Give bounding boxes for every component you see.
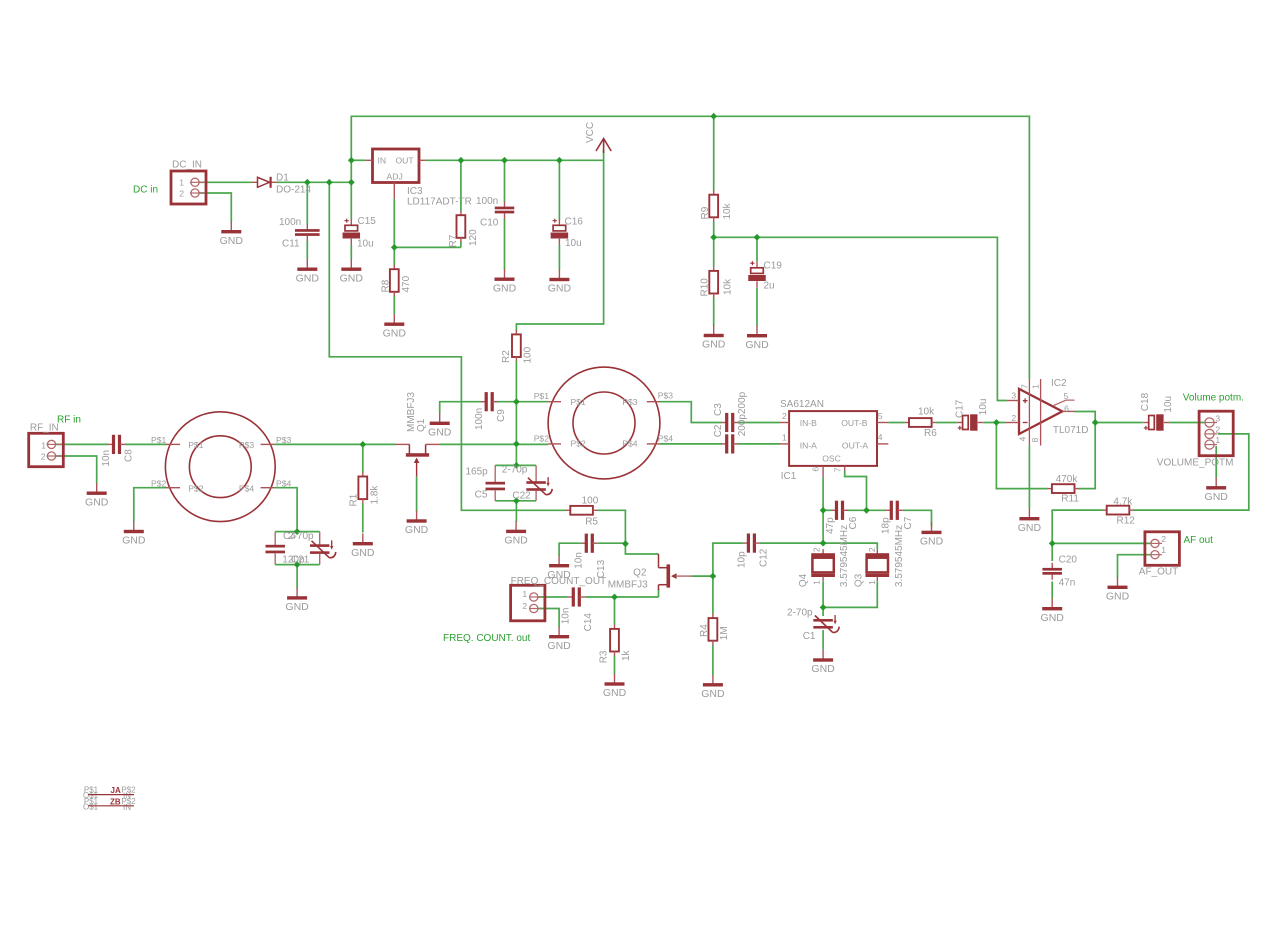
wire RF_IN pin2 to ground [56, 456, 97, 484]
svg-text:1: 1 [179, 178, 184, 188]
wire IC1 pin7 dogleg [845, 471, 867, 510]
wire C9 right to R2 node [497, 401, 516, 403]
svg-text:1: 1 [522, 589, 527, 599]
resistor R5 100 [566, 506, 597, 515]
svg-text:C22: C22 [512, 490, 531, 501]
svg-text:C2: C2 [713, 424, 724, 437]
svg-text:IN: IN [123, 803, 131, 812]
wire FREQ pin1 to C14 [538, 596, 568, 598]
wire C17 to op-amp pin2 [983, 422, 1006, 424]
resistor R7 120 [457, 211, 466, 242]
svg-text:100n: 100n [476, 196, 498, 207]
node osc C7/pin7 junction [863, 507, 870, 514]
svg-text:P$2: P$2 [151, 479, 167, 489]
svg-text:C17: C17 [954, 399, 965, 418]
ground op-amp pin4 [1018, 509, 1042, 534]
transformer TR2 [534, 367, 674, 479]
svg-text:2-70p: 2-70p [787, 607, 813, 618]
svg-text:P$4: P$4 [276, 479, 292, 489]
svg-text:C11: C11 [282, 239, 300, 250]
wire IC1 pin6 osc leg [822, 477, 824, 543]
capacitor C16 10u [551, 219, 569, 246]
svg-text:6: 6 [1064, 403, 1069, 413]
node tank2 bottom junction [513, 497, 520, 504]
svg-text:3.579545MHz: 3.579545MHz [839, 525, 850, 587]
svg-text:FREQ_COUNT_OUT: FREQ_COUNT_OUT [511, 576, 607, 587]
svg-text:R9: R9 [700, 206, 711, 219]
ground Q1 [405, 511, 429, 536]
svg-text:470: 470 [401, 275, 412, 292]
ground tank2 [504, 521, 528, 546]
svg-text:47p: 47p [825, 517, 836, 534]
resistor R11 470k [1048, 484, 1079, 493]
wire R1 leg [362, 444, 364, 532]
svg-text:P$4: P$4 [239, 484, 255, 494]
node C19 junction [754, 234, 761, 241]
svg-text:R6: R6 [924, 428, 937, 439]
wire IC3 IN branch [351, 159, 365, 161]
svg-text:TL071D: TL071D [1053, 425, 1089, 436]
svg-text:10u: 10u [565, 238, 582, 249]
svg-text:1: 1 [812, 580, 822, 585]
resistor R8 470 [390, 265, 399, 296]
node tank2 top junction [513, 462, 520, 469]
ground R1 [351, 534, 375, 559]
connector X1 DC_IN [171, 160, 206, 205]
svg-text:C1: C1 [803, 631, 816, 642]
svg-text:10p: 10p [737, 551, 748, 568]
ground potm pin1 [1205, 478, 1229, 503]
svg-text:18p: 18p [881, 517, 892, 534]
node tank1 top junction [294, 528, 301, 535]
capacitor C7 18p [886, 501, 903, 520]
svg-text:10u: 10u [978, 399, 989, 416]
wire Q2 drain dogleg [625, 544, 658, 554]
node VCC/R9 junction [710, 113, 717, 120]
capacitor C19 2u [748, 261, 766, 288]
svg-text:100: 100 [523, 346, 534, 363]
svg-text:R12: R12 [1117, 516, 1136, 527]
svg-text:2: 2 [522, 601, 527, 611]
capacitor C9 100n [481, 392, 498, 411]
svg-text:OUT: OUT [396, 155, 415, 165]
svg-text:C8: C8 [123, 449, 134, 462]
svg-text:P$2: P$2 [571, 438, 587, 448]
wire crystals gate line to Q3 [823, 543, 877, 549]
resistor R3 1k [610, 625, 619, 656]
wire tank C4/C21 bottom rail [275, 564, 320, 566]
connector X2 RF_IN [29, 423, 64, 467]
svg-text:P$2: P$2 [534, 434, 550, 444]
wire C13 left to ground [559, 543, 581, 556]
svg-text:2: 2 [179, 189, 184, 199]
svg-text:ADJ: ADJ [387, 171, 403, 181]
svg-text:RF in: RF in [57, 414, 81, 425]
svg-text:AF out: AF out [1184, 535, 1214, 546]
svg-text:C18: C18 [1140, 392, 1151, 411]
node junction dots [348, 157, 355, 164]
wire L1 P$3 to Q1 [275, 443, 396, 445]
transistor Q2 MMBFJ3 [608, 554, 691, 591]
wire tank to ground [296, 565, 298, 589]
node osc C6 junction [820, 507, 827, 514]
capacitor C5 165p [466, 465, 506, 500]
svg-text:P$3: P$3 [622, 397, 638, 407]
transistor Q1 MMBFJ3 [396, 392, 440, 477]
trimmer C21 2-70p [283, 531, 336, 565]
node R5/C13/Q2 junction [622, 540, 629, 547]
ground C7 [920, 522, 944, 547]
svg-text:OUT-A: OUT-A [842, 440, 869, 450]
wire C19 leg [756, 237, 758, 326]
op-amp IC2 TL071D [1006, 378, 1089, 446]
svg-text:IN-A: IN-A [800, 440, 817, 450]
trimmer C1 2-70p [813, 615, 839, 633]
node OUT/C16 junction [556, 157, 563, 164]
svg-text:1: 1 [1161, 545, 1166, 555]
node output junction [1092, 419, 1099, 426]
resistor R6 10k [905, 418, 936, 427]
ground C20 [1041, 599, 1065, 624]
wire L1 P$2 to ground [134, 488, 166, 522]
ground R4 [701, 675, 725, 700]
wire C14 line to Q2 source [585, 596, 659, 598]
wire tank C4/C21 top rail [275, 531, 320, 533]
svg-text:P$1: P$1 [534, 391, 550, 401]
node C17/op-amp junction [993, 419, 1000, 426]
svg-text:Q4: Q4 [798, 573, 809, 587]
wire R4 leg [712, 576, 714, 675]
wire IC3 OUT rail to VCC and R2 [426, 150, 604, 331]
wire C15 leg [350, 182, 352, 259]
capacitor C2 200p [721, 434, 738, 453]
svg-text:2: 2 [867, 547, 877, 552]
wire C13 to R5 node [598, 542, 626, 544]
svg-text:1: 1 [41, 440, 46, 450]
ground RF_IN pin2 [85, 483, 109, 508]
svg-text:C5: C5 [475, 489, 488, 500]
wire Q2 source down [658, 589, 660, 597]
svg-text:10k: 10k [723, 278, 734, 295]
svg-text:FREQ. COUNT. out: FREQ. COUNT. out [443, 633, 530, 644]
symbol JA jumper (sheet corner) [83, 786, 136, 801]
svg-text:C15: C15 [358, 216, 377, 227]
wire VCC top rail [351, 116, 1029, 379]
svg-text:2: 2 [1215, 424, 1220, 434]
wire C10 leg [504, 160, 506, 269]
svg-text:200p: 200p [737, 391, 748, 414]
wire C16 leg [558, 160, 560, 269]
svg-text:DC_IN: DC_IN [172, 160, 202, 171]
svg-text:10k: 10k [918, 407, 935, 418]
svg-text:10n: 10n [561, 608, 572, 625]
svg-text:MMBFJ3: MMBFJ3 [608, 580, 648, 591]
capacitor C4 120p [266, 532, 310, 566]
wire IC1 pin5 to R6 [888, 422, 905, 424]
svg-text:1k: 1k [621, 649, 632, 661]
svg-text:OSC: OSC [822, 454, 841, 464]
svg-text:IN: IN [378, 155, 387, 165]
svg-text:R8: R8 [381, 279, 392, 292]
svg-text:1.8k: 1.8k [369, 485, 380, 505]
svg-text:7: 7 [1020, 384, 1030, 389]
svg-text:DO-214: DO-214 [276, 185, 311, 196]
node crystal gate junction [820, 540, 827, 547]
wire DC_IN pin2 to ground [199, 193, 231, 222]
svg-text:P$1: P$1 [188, 440, 204, 450]
resistor R1 1.8k [358, 472, 367, 503]
wire R2 bottom vertical through P$2 node to tank2 [515, 361, 517, 465]
wire gate line to C12 corner [713, 543, 743, 576]
svg-text:3.579545MHz: 3.579545MHz [894, 525, 905, 587]
capacitor C15 10u [343, 219, 361, 246]
svg-text:165p: 165p [466, 466, 489, 477]
ground tank1 [285, 588, 309, 613]
wire RF_IN pin1 to C8 [56, 443, 108, 445]
connector X4 AF_OUT [1139, 532, 1180, 578]
node crystal bottom junction [820, 604, 827, 611]
svg-text:Q1: Q1 [416, 418, 427, 432]
node R2/C9/L2P$1 junction [513, 398, 520, 405]
wire C12 to crystals node [760, 542, 823, 544]
svg-text:R1: R1 [348, 493, 359, 506]
wire node to L2 P$1 [516, 401, 548, 403]
svg-text:470k: 470k [1056, 474, 1079, 485]
svg-text:10k: 10k [722, 202, 733, 219]
svg-text:C12: C12 [758, 548, 769, 567]
svg-text:P$2: P$2 [188, 484, 204, 494]
wire C2 to IC1 pin1 [738, 443, 780, 445]
svg-text:R7: R7 [448, 234, 459, 247]
ground C15 [340, 259, 364, 284]
svg-text:VCC: VCC [585, 122, 596, 143]
svg-text:6: 6 [811, 467, 821, 472]
svg-text:R3: R3 [598, 650, 609, 663]
svg-text:R11: R11 [1061, 494, 1079, 505]
svg-text:8: 8 [1030, 438, 1040, 443]
svg-text:3: 3 [1011, 390, 1016, 400]
svg-text:Volume potm.: Volume potm. [1183, 393, 1244, 404]
ground C19 [745, 326, 769, 351]
resistor R10 10k [709, 267, 718, 298]
svg-text:P$3: P$3 [276, 435, 292, 445]
wire FREQ pin2 to ground [538, 609, 559, 628]
wire op-amp pin6 output to feedback right leg [1075, 412, 1096, 489]
supply symbol VCC [585, 122, 611, 153]
svg-text:200p: 200p [737, 414, 748, 437]
wire potm pin1 to ground [1215, 446, 1217, 478]
svg-text:P$1: P$1 [571, 397, 587, 407]
capacitor C20 47n [1042, 563, 1062, 580]
svg-text:5: 5 [878, 411, 883, 421]
svg-text:1M: 1M [719, 626, 730, 640]
wire R12 to C20/AF node [1052, 510, 1151, 543]
node ADJ/R8 junction [391, 244, 398, 251]
node C14/R3 junction [611, 594, 618, 601]
node R9/R10 junction [710, 234, 717, 241]
wire C6 to pin7 node [848, 509, 886, 511]
capacitor C18 10u [1143, 414, 1170, 430]
ground C16 [548, 269, 572, 294]
svg-text:VOLUME_POTM: VOLUME_POTM [1157, 457, 1234, 468]
svg-text:1: 1 [782, 432, 787, 442]
ground FREQ pin2 [547, 627, 571, 652]
wire L2 P$4 to C2 [660, 443, 722, 445]
node D1/C11 junction [304, 179, 311, 186]
svg-text:R4: R4 [699, 624, 710, 637]
svg-text:47n: 47n [1059, 578, 1076, 589]
node R12/C20/AF junction [1049, 540, 1056, 547]
ground C1 [811, 650, 835, 675]
wire R7 leg [460, 160, 462, 247]
svg-text:4: 4 [1018, 437, 1028, 442]
svg-text:10n: 10n [574, 552, 585, 569]
svg-text:IC2: IC2 [1051, 378, 1067, 389]
node OUT/C10 junction [501, 157, 508, 164]
symbol ZB jumper (sheet corner) [83, 797, 136, 812]
wire op-amp pin4 to ground [1028, 446, 1030, 509]
svg-text:2: 2 [1161, 534, 1166, 544]
wire R8 leg [393, 247, 395, 314]
svg-text:2: 2 [812, 547, 822, 552]
svg-text:2: 2 [1011, 413, 1016, 423]
svg-text:JA: JA [111, 786, 121, 795]
svg-text:5: 5 [1064, 391, 1069, 401]
ground C13 [547, 556, 571, 581]
svg-text:2-70p: 2-70p [288, 531, 314, 542]
svg-text:C20: C20 [1059, 554, 1078, 565]
ground C10 [493, 269, 517, 294]
wire AF_OUT pin1 to ground [1118, 555, 1151, 578]
svg-text:C16: C16 [565, 217, 584, 228]
mixer IC1 SA612AN [780, 399, 888, 482]
svg-text:RF_IN: RF_IN [30, 423, 59, 434]
ground TR1 P$2 [122, 521, 146, 546]
wire C6 stub left [823, 509, 831, 511]
node R1 junction [359, 441, 366, 448]
svg-text:C3: C3 [713, 403, 724, 416]
ground AF_OUT pin1 [1106, 577, 1130, 602]
trimmer C22 2-70p [502, 464, 552, 501]
connector X5 FREQ_COUNT_OUT [511, 576, 607, 621]
diode D1 DO-214 [252, 173, 312, 196]
ground R8 [383, 314, 407, 339]
resistor R12 4.7k [1103, 506, 1134, 515]
svg-text:100: 100 [582, 496, 599, 507]
wire R6 to C17 [936, 422, 957, 424]
svg-text:P$4: P$4 [622, 438, 638, 448]
node D1/C15 junction [348, 179, 355, 186]
wire ADJ net [394, 199, 461, 248]
wire L2 P$3 dogleg to C3 [660, 402, 722, 423]
svg-text:C21: C21 [291, 555, 310, 566]
capacitor C6 47p [831, 501, 848, 520]
capacitor C11 100n [295, 224, 320, 241]
svg-text:2: 2 [41, 452, 46, 462]
svg-text:7: 7 [833, 467, 843, 472]
svg-text:SA612AN: SA612AN [780, 399, 824, 410]
svg-text:P$4: P$4 [658, 434, 674, 444]
svg-text:LD117ADT-TR: LD117ADT-TR [407, 197, 472, 208]
svg-text:10n: 10n [101, 450, 112, 467]
wire crystal bottom U [823, 581, 877, 607]
wire Q2 gate to R4 node [691, 575, 713, 577]
wire C9 left to ground [440, 402, 481, 414]
wire C7 to ground [903, 510, 932, 526]
wire R10 leg [713, 237, 715, 326]
svg-text:D1: D1 [276, 173, 289, 184]
svg-text:IN-B: IN-B [800, 418, 817, 428]
svg-text:2: 2 [782, 411, 787, 421]
wire tank C5/C22 bottom rail [495, 500, 536, 502]
svg-text:1: 1 [1031, 384, 1041, 389]
crystal Q3 3.579545MHz [865, 549, 889, 581]
svg-text:4.7k: 4.7k [1113, 496, 1133, 507]
wire R9 top leg [713, 116, 715, 237]
wire L1 P$4 to tank [275, 488, 298, 532]
resistor R2 100 [512, 330, 521, 361]
wire D1 cathode net [277, 181, 352, 183]
node L2 P$2 junction [513, 441, 520, 448]
svg-text:120: 120 [468, 229, 479, 246]
wire R9-R10 mid net to op-amp pin3 [714, 237, 1007, 400]
svg-text:100n: 100n [474, 408, 485, 430]
svg-text:R5: R5 [585, 517, 598, 528]
svg-text:R10: R10 [700, 278, 711, 297]
ground C11 [296, 259, 320, 284]
regulator IC3 LD117ADT-TR [366, 149, 472, 208]
transformer TR1 [151, 412, 292, 522]
svg-text:DC in: DC in [133, 185, 158, 196]
ground DC_IN pin2 [220, 222, 244, 247]
svg-text:10u: 10u [357, 239, 374, 250]
wire tank2 to ground [515, 501, 517, 522]
svg-text:2u: 2u [764, 281, 775, 292]
svg-text:Q2: Q2 [633, 568, 647, 579]
svg-text:3: 3 [1215, 414, 1220, 424]
ground C9 left [428, 413, 452, 438]
svg-text:IC3: IC3 [407, 186, 423, 197]
wire unregulated net down-across-down to R5 [329, 182, 566, 510]
svg-text:R2: R2 [501, 350, 512, 363]
capacitor C14 10n [568, 587, 585, 606]
capacitor C3 200p [721, 413, 738, 432]
node D1/long-wire junction [326, 179, 333, 186]
svg-text:P$3: P$3 [239, 440, 255, 450]
wire tank C5/C22 top rail [495, 464, 536, 466]
resistor R9 10k [709, 191, 718, 222]
capacitor C10 100n [495, 202, 515, 219]
svg-text:10u: 10u [1163, 396, 1174, 413]
crystal Q4 3.579545MHz [811, 549, 835, 581]
svg-text:IC1: IC1 [781, 471, 797, 482]
wire feedback left leg [996, 423, 1048, 489]
capacitor C17 10u [957, 414, 984, 430]
svg-text:4: 4 [878, 432, 883, 442]
node OUT/R7 junction [458, 157, 465, 164]
svg-text:Q3: Q3 [854, 573, 865, 587]
svg-text:AF_OUT: AF_OUT [1139, 566, 1178, 577]
ground R3 [603, 674, 627, 699]
ground R10 [702, 325, 726, 350]
wire Q1 to L2 P$2 [439, 443, 548, 445]
capacitor C12 10p [743, 534, 760, 553]
svg-text:2-70p: 2-70p [502, 464, 528, 475]
wire R5 to Q2 node [597, 510, 626, 543]
node Q2 gate/R4/C12 junction [710, 573, 717, 580]
wire C3 to IC1 pin2 [738, 422, 780, 424]
capacitor C8 10n [108, 435, 125, 454]
